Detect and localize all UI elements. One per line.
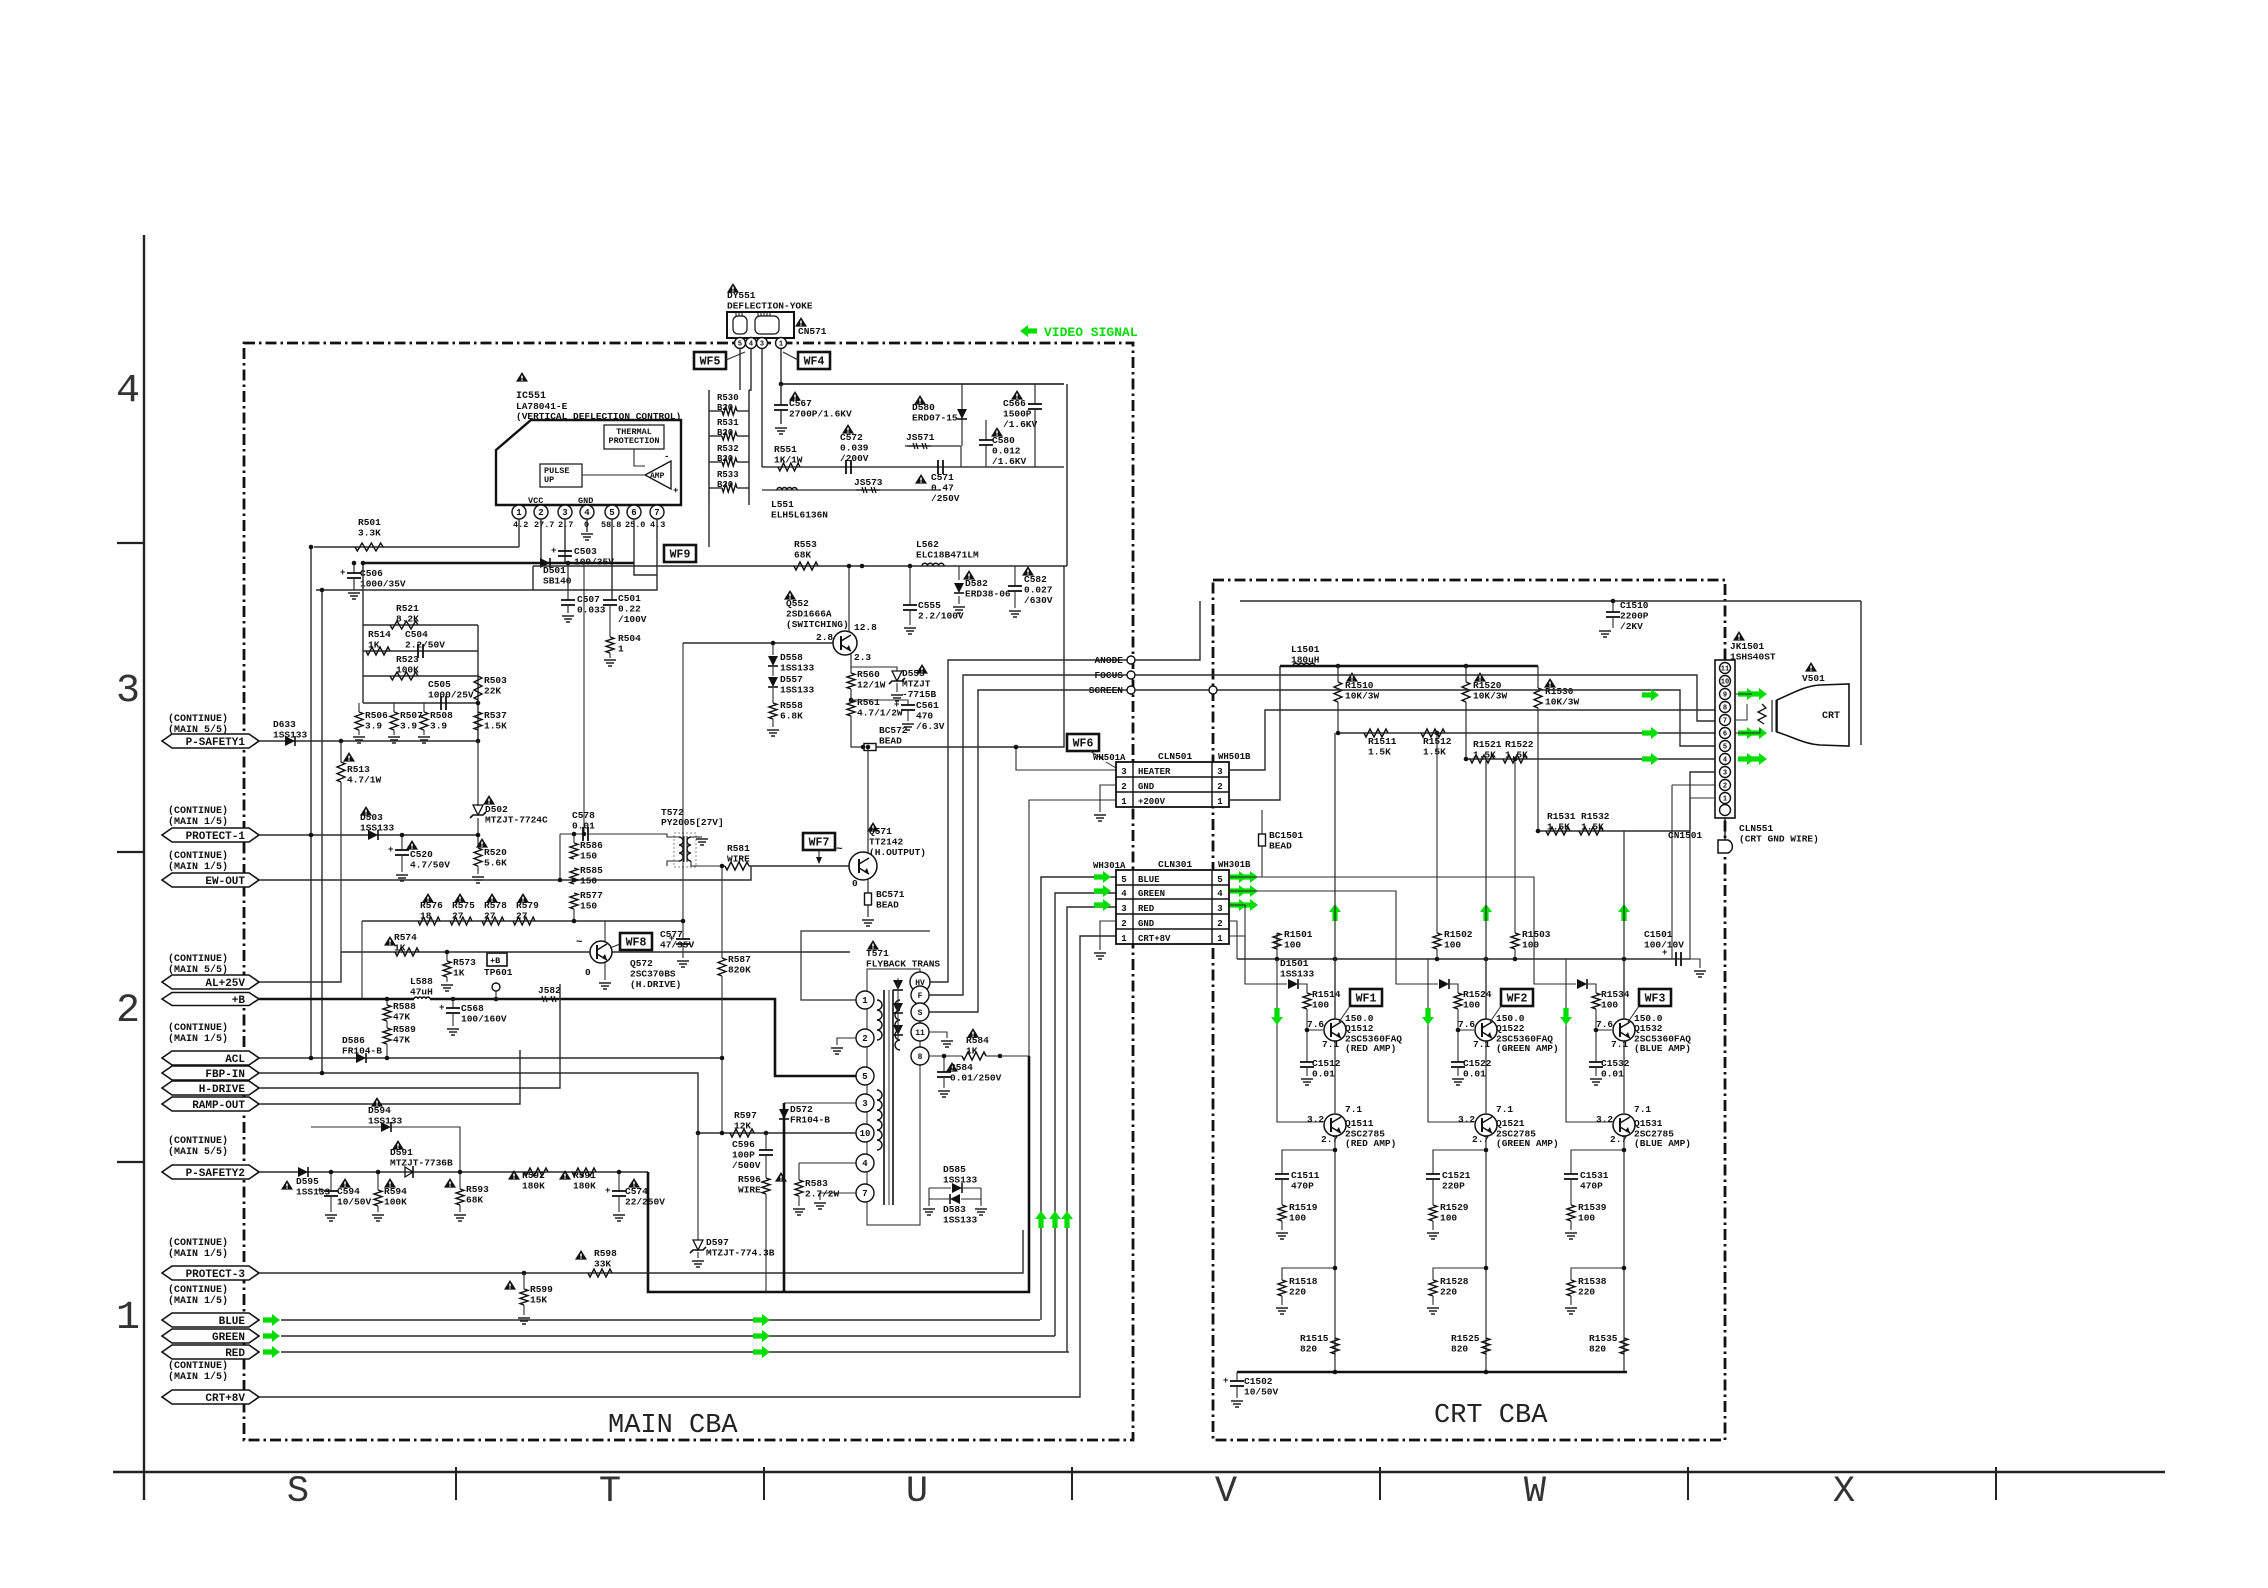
svg-text:1SS133: 1SS133: [780, 663, 815, 674]
diode D585: [929, 1187, 951, 1189]
resistor R1524: [1454, 993, 1462, 1009]
resistor R584: [962, 1052, 986, 1060]
svg-text:100: 100: [1289, 1213, 1306, 1224]
svg-text:1.5K: 1.5K: [484, 721, 507, 732]
wire T572 secondary top to ground: [691, 836, 702, 838]
svg-text:2: 2: [1217, 919, 1222, 929]
svg-text:Q1512: Q1512: [1345, 1023, 1374, 1034]
socket pin 9: [1720, 689, 1731, 700]
block PULSE UP: [540, 464, 582, 487]
svg-text:0: 0: [852, 878, 858, 889]
wire yoke pin1 down: [780, 349, 782, 384]
wire socket bottom to CN1501: [1724, 818, 1726, 840]
svg-text:7.1: 7.1: [1611, 1039, 1628, 1050]
svg-text:(H.DRIVE): (H.DRIVE): [630, 979, 681, 990]
op-amp AMP triangle: [645, 461, 671, 489]
svg-text:R573: R573: [453, 957, 476, 968]
svg-text:R1522: R1522: [1505, 739, 1534, 750]
capacitor C1512: [1306, 1030, 1308, 1062]
wire yoke pin5 down: [739, 349, 741, 390]
svg-text:BLUE: BLUE: [1138, 875, 1160, 885]
svg-text:C1511: C1511: [1291, 1170, 1320, 1181]
svg-text:5: 5: [862, 1072, 867, 1082]
svg-text:7.1: 7.1: [1345, 1104, 1362, 1115]
wire RAMP-OUT row y1104: [259, 1050, 520, 1104]
svg-text:5.6K: 5.6K: [484, 858, 507, 869]
svg-text:R1503: R1503: [1522, 929, 1551, 940]
wire H-DRIVE row y1088: [259, 984, 560, 1088]
svg-text:TP601: TP601: [484, 967, 513, 978]
socket pin 5: [1720, 741, 1731, 752]
svg-text:R1501: R1501: [1284, 929, 1313, 940]
junction rail x1466: [1464, 664, 1469, 669]
svg-text:R1534: R1534: [1601, 989, 1630, 1000]
warning triangle R579: [517, 893, 529, 903]
wire pin3 down: [564, 519, 566, 563]
svg-text:R514: R514: [368, 629, 391, 640]
WF1 pointer: [1339, 1006, 1350, 1022]
svg-text:Q1521: Q1521: [1496, 1118, 1525, 1129]
svg-text:22/250V: 22/250V: [625, 1197, 665, 1208]
svg-text:D572: D572: [790, 1104, 813, 1115]
svg-text:R585: R585: [580, 865, 603, 876]
svg-text:/6.3V: /6.3V: [916, 721, 945, 732]
warning triangle D580: [914, 395, 926, 405]
svg-text:58.8: 58.8: [601, 520, 621, 530]
svg-text:2700P/1.6KV: 2700P/1.6KV: [789, 409, 852, 420]
wire R553 row y566: [533, 565, 1067, 567]
resistor R521: [390, 621, 418, 629]
svg-text:5: 5: [738, 341, 742, 349]
green arrow socket row4 right: [1738, 753, 1755, 765]
input riser BLUE: [1566, 959, 1612, 1122]
capacitor C571: [937, 460, 939, 474]
warning triangle C566: [1011, 390, 1023, 400]
svg-text:1500P: 1500P: [1003, 409, 1032, 420]
wire main column BLUE: [1623, 831, 1625, 1019]
green arrow input GREEN: [1422, 1008, 1434, 1025]
svg-text:+B: +B: [490, 956, 500, 966]
resistor R1531: [1546, 827, 1570, 835]
capacitor C1522: [1457, 1030, 1459, 1062]
wire screen to socket: [1135, 690, 1716, 746]
capacitor C1502: [1236, 1372, 1238, 1381]
svg-text:(GREEN AMP): (GREEN AMP): [1496, 1043, 1559, 1054]
warning triangle C572: [842, 424, 854, 434]
svg-text:2.2/50V: 2.2/50V: [405, 640, 445, 651]
svg-text:10K/3W: 10K/3W: [1545, 697, 1580, 708]
warning triangle D594: [371, 1097, 383, 1107]
branch C15x1 RED: [1282, 1150, 1335, 1174]
svg-text:R513: R513: [347, 764, 370, 775]
svg-text:R1519: R1519: [1289, 1202, 1318, 1213]
green arrows WH301A left: [1094, 871, 1111, 883]
svg-text:0.47: 0.47: [931, 483, 954, 494]
green arrow output BLUE up: [1618, 904, 1630, 921]
jumper JS573: [856, 489, 880, 491]
svg-text:100: 100: [1440, 1213, 1457, 1224]
WF8 waveform label: [620, 933, 652, 950]
resistor R532: [722, 458, 737, 466]
diode D582: [958, 566, 960, 580]
svg-text:6: 6: [1723, 731, 1727, 739]
svg-text:R504: R504: [618, 633, 641, 644]
svg-text:100: 100: [1522, 940, 1539, 951]
svg-text:D586: D586: [342, 1035, 365, 1046]
wire right bus x1067 down: [1066, 384, 1068, 566]
svg-text:+: +: [317, 1186, 322, 1196]
resistor R1528: [1429, 1280, 1437, 1296]
wire CRT top rail y601: [1240, 600, 1861, 602]
wire T572 primary top: [605, 834, 679, 837]
WF4 waveform label: [798, 352, 830, 369]
svg-text:C1512: C1512: [1312, 1058, 1341, 1069]
socket pin 4: [1720, 754, 1731, 765]
MAIN CBA board outline: [244, 343, 1133, 1440]
svg-text:1SS133: 1SS133: [1280, 969, 1315, 980]
svg-text:R1525: R1525: [1451, 1333, 1480, 1344]
warning triangle R599: [504, 1280, 516, 1290]
svg-text:/250V: /250V: [931, 493, 960, 504]
ground BC571: [867, 905, 869, 917]
wire pin6 down: [634, 519, 657, 575]
junction P-SAFETY1 x341: [339, 739, 344, 744]
IC551 pin 4: [580, 505, 594, 519]
resistor R1501: [1276, 933, 1278, 959]
diode D1511 green amp input: [1439, 979, 1449, 989]
transistor Q1531: [1613, 1114, 1635, 1136]
svg-text:D580: D580: [912, 402, 935, 413]
warning triangle R578: [486, 893, 498, 903]
svg-text:0.01: 0.01: [1312, 1069, 1335, 1080]
svg-text:R579: R579: [516, 900, 539, 911]
svg-text:470: 470: [916, 711, 933, 722]
svg-text:12K: 12K: [734, 1121, 751, 1132]
yoke pin 3: [757, 338, 768, 349]
svg-text:2SD1666A: 2SD1666A: [786, 609, 832, 620]
waveform label WF3: [1639, 989, 1671, 1006]
svg-text:R1514: R1514: [1312, 989, 1341, 1000]
wire R561 down to bead: [851, 716, 864, 747]
IC551 pin 3: [558, 505, 572, 519]
junction rail x1338: [1336, 664, 1341, 669]
capacitor C566: [1034, 384, 1036, 404]
svg-text:CLN551: CLN551: [1739, 823, 1774, 834]
CRT grid lines: [1771, 700, 1773, 732]
svg-text:25.0: 25.0: [625, 520, 645, 530]
wire Q552 emitter: [850, 654, 852, 673]
svg-text:27: 27: [484, 911, 496, 922]
svg-text:1.5K: 1.5K: [1581, 822, 1604, 833]
svg-text:S: S: [918, 1009, 923, 1018]
warning triangle R592: [508, 1170, 520, 1180]
svg-text:PROTECT-1: PROTECT-1: [186, 831, 246, 843]
wire D585 loop ends: [928, 1188, 930, 1206]
svg-text:(CONTINUE): (CONTINUE): [168, 1284, 228, 1296]
wire socket pins to CRT: [1735, 693, 1752, 695]
svg-text:2.7/2W: 2.7/2W: [805, 1189, 840, 1200]
diode D594: [311, 1127, 460, 1172]
transistor Q1512: [1324, 1019, 1346, 1041]
flyback pin 11: [911, 1023, 929, 1041]
flyback pin 3: [856, 1094, 874, 1112]
diode D558: [772, 643, 774, 655]
svg-text:C572: C572: [840, 432, 863, 443]
junction C506: [352, 561, 357, 566]
warning triangle R584: [967, 1028, 979, 1038]
svg-text:V: V: [1215, 1471, 1237, 1513]
IC551 pin 7: [650, 505, 664, 519]
wire ladder bottom down: [708, 505, 710, 547]
resistor R598: [588, 1269, 612, 1277]
net flag +B: [162, 993, 259, 1006]
green arrow BLUE left: [263, 1314, 280, 1326]
WF7 waveform label: [803, 833, 835, 850]
svg-text:3: 3: [760, 341, 764, 349]
svg-text:6.8K: 6.8K: [780, 711, 803, 722]
svg-text:(CONTINUE): (CONTINUE): [168, 1237, 228, 1249]
svg-text:Q1531: Q1531: [1634, 1118, 1663, 1129]
green arrow riser3 up: [1061, 1211, 1073, 1228]
wire RED row y1352: [281, 1351, 1069, 1353]
wire base GREEN top transistor: [1458, 1009, 1474, 1030]
svg-text:1K/1W: 1K/1W: [774, 455, 803, 466]
svg-text:220P: 220P: [1442, 1181, 1465, 1192]
svg-text:D557: D557: [780, 674, 803, 685]
svg-text:ACL: ACL: [225, 1054, 245, 1066]
svg-text:0.01/250V: 0.01/250V: [950, 1073, 1002, 1084]
svg-text:R532: R532: [717, 444, 739, 454]
resistor R530: [722, 407, 737, 415]
svg-text:3: 3: [116, 669, 140, 714]
svg-text:12/1W: 12/1W: [857, 680, 886, 691]
wire socket pin2 row: [1672, 784, 1716, 786]
resistor R1529: [1429, 1205, 1437, 1221]
svg-text:100: 100: [1463, 1000, 1480, 1011]
resistor R504: [606, 637, 614, 653]
block THERMAL PROTECTION: [604, 425, 664, 449]
svg-text:L551: L551: [771, 499, 794, 510]
svg-text:7.6: 7.6: [1307, 1019, 1324, 1030]
svg-text:5: 5: [609, 508, 614, 518]
svg-text:1.5K: 1.5K: [1368, 747, 1391, 758]
svg-text:100: 100: [1601, 1000, 1618, 1011]
svg-text:ANODE: ANODE: [1094, 655, 1123, 666]
green arrow GREEN mid: [753, 1330, 770, 1342]
capacitor C577: [682, 921, 684, 939]
svg-text:BEAD: BEAD: [876, 900, 899, 911]
capacitor C578: [560, 833, 583, 835]
svg-text:4: 4: [862, 1159, 868, 1169]
svg-text:DEFLECTION-YOKE: DEFLECTION-YOKE: [727, 301, 813, 312]
warning triangle Q571: [867, 822, 879, 832]
capacitor C580: [985, 420, 987, 440]
svg-text:R1535: R1535: [1589, 1333, 1618, 1344]
svg-text:220: 220: [1578, 1287, 1595, 1298]
svg-text:WF4: WF4: [804, 356, 825, 369]
svg-text:0.22: 0.22: [618, 604, 641, 615]
svg-text:R506: R506: [365, 710, 388, 721]
CRT CBA board outline: [1213, 580, 1725, 1440]
bottom ruler tick x1380: [1379, 1467, 1381, 1500]
svg-text:7.6: 7.6: [1458, 1019, 1475, 1030]
svg-text:R576: R576: [420, 900, 443, 911]
resistor R579: [513, 917, 535, 925]
svg-text:/1.6KV: /1.6KV: [1003, 419, 1038, 430]
svg-text:4: 4: [584, 508, 590, 518]
svg-text:1: 1: [1217, 934, 1223, 944]
input riser RED: [1277, 959, 1323, 1122]
warning triangle JK1501: [1733, 631, 1745, 641]
wire EW-OUT row y880: [259, 866, 751, 880]
connector CLN501: [1116, 762, 1229, 807]
diode D1501: [1229, 905, 1287, 984]
jumper J582: [536, 998, 560, 1000]
svg-text:68K: 68K: [466, 1195, 483, 1206]
resistor R575: [450, 917, 472, 925]
wire x362 from row down: [361, 921, 363, 999]
svg-text:1: 1: [1121, 934, 1127, 944]
WF2 pointer: [1490, 1006, 1501, 1022]
warning triangle R576: [422, 893, 434, 903]
ferrite bead BC571: [865, 893, 872, 905]
svg-text:GREEN: GREEN: [1138, 889, 1165, 899]
warning triangle IC551: [516, 372, 528, 382]
warning triangle C594: [339, 1178, 351, 1188]
wire emitter Q1532 down: [1623, 1041, 1625, 1113]
svg-text:C584: C584: [950, 1062, 973, 1073]
warning triangle C571: [915, 474, 927, 484]
svg-text:(MAIN 5/5): (MAIN 5/5): [168, 1146, 228, 1158]
capacitor C506: [353, 563, 355, 573]
svg-text:D585: D585: [943, 1164, 966, 1175]
wire S to screen: [929, 690, 1127, 1012]
left ruler tick y543: [117, 542, 144, 544]
svg-text:3: 3: [562, 508, 567, 518]
svg-text:/200V: /200V: [840, 453, 869, 464]
wire base BLUE top transistor: [1596, 1009, 1612, 1030]
svg-text:180K: 180K: [522, 1181, 545, 1192]
svg-text:SCREEN: SCREEN: [1089, 685, 1124, 696]
wire emitter Q1522 down: [1485, 1041, 1487, 1113]
svg-text:R1518: R1518: [1289, 1276, 1318, 1287]
wire emitter Q1512 down: [1334, 1041, 1336, 1113]
zener diode D597: [697, 1133, 699, 1240]
svg-text:3: 3: [1121, 767, 1126, 777]
IC551 pin 1: [512, 505, 526, 519]
junction +B x496: [494, 997, 499, 1002]
svg-text:R593: R593: [466, 1184, 489, 1195]
svg-text:3.2: 3.2: [1307, 1114, 1324, 1125]
svg-text:C571: C571: [931, 472, 954, 483]
bottom ruler line: [113, 1471, 2165, 1473]
svg-text:220: 220: [1289, 1287, 1306, 1298]
resistor R1532: [1579, 827, 1603, 835]
svg-text:C1522: C1522: [1463, 1058, 1492, 1069]
wire thermal to amp: [634, 449, 645, 466]
wire CLN501 HEATER right: [1229, 710, 1716, 770]
svg-text:R574: R574: [394, 932, 417, 943]
svg-text:7.1: 7.1: [1496, 1104, 1513, 1115]
green arrow input RED: [1271, 1008, 1283, 1025]
capacitor C503: [558, 550, 572, 552]
inductor L588: [414, 997, 430, 999]
wire rail x322 from pin7 row down: [321, 590, 323, 1073]
green arrow output GREEN up: [1480, 904, 1492, 921]
wire cluster rail x478: [477, 625, 479, 741]
svg-text:Q1532: Q1532: [1634, 1023, 1663, 1034]
svg-text:C555: C555: [918, 600, 941, 611]
capacitor C1531: [1564, 1173, 1578, 1175]
wire CLN301 CRT+8V right to rail: [1229, 936, 1245, 959]
WF8 pointer: [610, 944, 620, 948]
flyback HV rectifier diodes: [893, 980, 903, 990]
svg-text:-: -: [664, 452, 669, 462]
svg-text:D594: D594: [368, 1105, 391, 1116]
svg-text:0: 0: [585, 967, 591, 978]
svg-text:(CONTINUE): (CONTINUE): [168, 1360, 228, 1372]
svg-text:R588: R588: [393, 1001, 416, 1012]
svg-text:J582: J582: [538, 985, 561, 996]
svg-text:D502: D502: [485, 804, 508, 815]
diode D586: [356, 1053, 366, 1063]
svg-text:WIRE: WIRE: [727, 854, 750, 865]
pin stubs IC551: [518, 504, 520, 506]
svg-text:D633: D633: [273, 719, 296, 730]
svg-text:(RED AMP): (RED AMP): [1345, 1138, 1396, 1149]
wire GREEN row y1336: [281, 1335, 1055, 1337]
svg-text:220: 220: [1440, 1287, 1457, 1298]
wire pin11 right: [929, 1032, 947, 1038]
resistor R593: [459, 1172, 461, 1189]
wire Q552 collector: [848, 566, 850, 632]
wire R523 row y676: [363, 675, 478, 677]
junction top bus C567: [779, 382, 784, 387]
IC551 pin 6: [627, 505, 641, 519]
warning triangle D595: [281, 1180, 293, 1190]
resistor R1512: [1421, 729, 1445, 737]
svg-text:Q572: Q572: [630, 958, 653, 969]
warning triangle C582: [1022, 566, 1034, 576]
warning triangle D582: [963, 570, 975, 580]
svg-text:+: +: [439, 1003, 444, 1013]
green arrows WH301B right: [1230, 871, 1247, 883]
svg-text:0.033: 0.033: [577, 605, 606, 616]
capacitor C555: [909, 566, 911, 605]
svg-text:9: 9: [1723, 692, 1727, 700]
svg-text:FBP-IN: FBP-IN: [205, 1069, 245, 1081]
svg-text:D582: D582: [965, 578, 988, 589]
svg-text:R583: R583: [805, 1178, 828, 1189]
capacitor C520: [401, 835, 403, 850]
svg-text:(H.OUTPUT): (H.OUTPUT): [869, 847, 926, 858]
wire CLN501 +200V right: [1229, 666, 1280, 800]
svg-text:3.2: 3.2: [1458, 1114, 1475, 1125]
warning triangle R520: [476, 838, 488, 848]
svg-text:3.9: 3.9: [365, 721, 382, 732]
warning triangle D553: [916, 664, 928, 674]
capacitor C567: [780, 384, 782, 405]
svg-text:2.2/100V: 2.2/100V: [918, 611, 964, 622]
capacitor C572: [845, 460, 847, 474]
svg-text:PY2005[27V]: PY2005[27V]: [661, 817, 724, 828]
svg-text:DY551: DY551: [727, 290, 756, 301]
svg-text:/1.6KV: /1.6KV: [992, 456, 1027, 467]
svg-text:+: +: [673, 486, 678, 496]
svg-text:0.027: 0.027: [1024, 585, 1053, 596]
svg-text:(MAIN 1/5): (MAIN 1/5): [168, 1371, 228, 1383]
svg-text:D595: D595: [296, 1176, 319, 1187]
